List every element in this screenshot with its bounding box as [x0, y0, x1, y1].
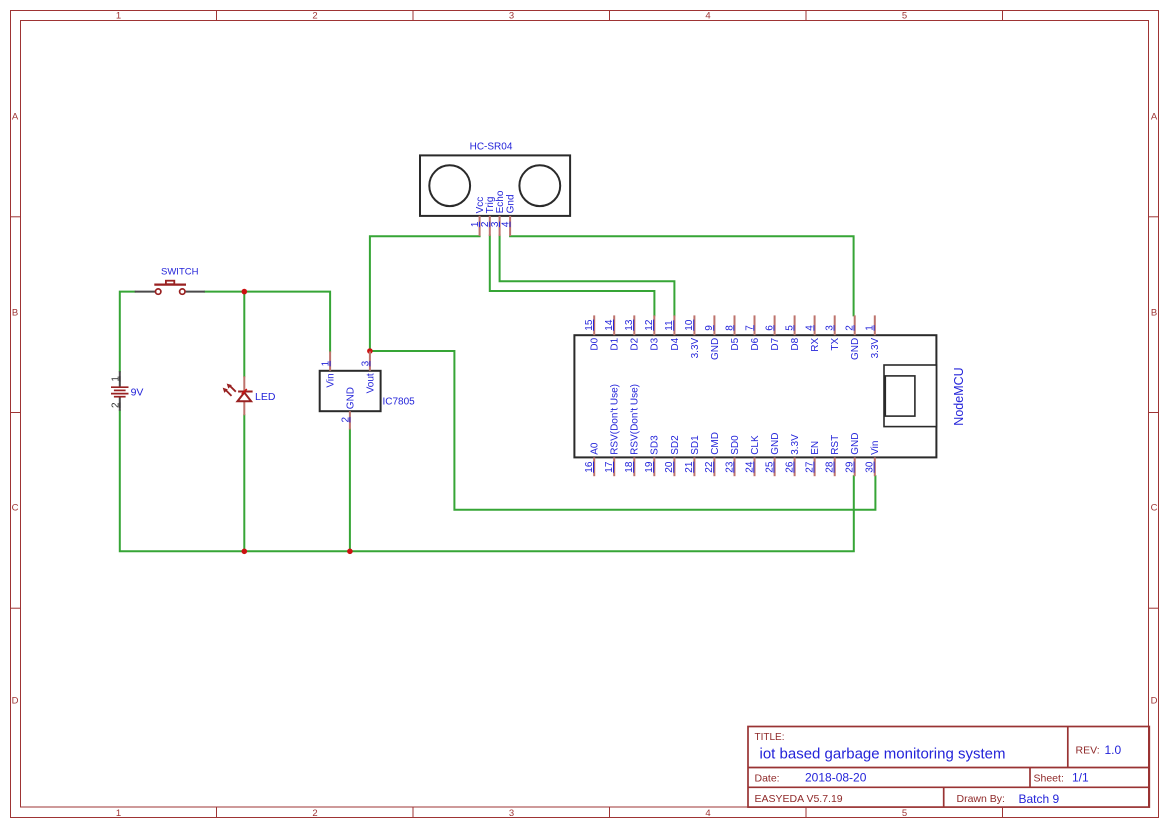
HC-SR04 pin 2 Trig	[480, 197, 496, 236]
HC-SR04 pin 3 Echo	[490, 190, 506, 236]
svg-text:IC7805: IC7805	[383, 397, 416, 408]
svg-text:23: 23	[724, 461, 735, 473]
svg-text:4: 4	[804, 325, 815, 331]
wire switch to IC7805 Vin (via LED node)	[205, 292, 330, 352]
svg-text:18: 18	[624, 461, 635, 473]
NodeMCU pin 20 SD2	[664, 435, 681, 476]
svg-text:14: 14	[604, 319, 615, 331]
svg-text:D5: D5	[730, 337, 741, 350]
NodeMCU pin 30 Vin	[865, 441, 882, 477]
svg-text:3: 3	[490, 221, 501, 227]
wire HC-SR04 Trig to NodeMCU D3 pin 12	[490, 236, 655, 316]
svg-text:GND: GND	[710, 338, 721, 360]
svg-text:4: 4	[705, 11, 710, 22]
svg-text:29: 29	[845, 461, 856, 473]
junction IC gnd junction	[347, 549, 353, 555]
svg-text:1/1: 1/1	[1072, 771, 1089, 785]
svg-text:1: 1	[321, 360, 332, 366]
svg-text:SD1: SD1	[690, 435, 701, 455]
LED symbol	[223, 376, 252, 415]
svg-text:HC-SR04: HC-SR04	[470, 141, 513, 152]
svg-text:TX: TX	[830, 337, 841, 350]
svg-text:REV:: REV:	[1076, 745, 1100, 757]
NodeMCU pin 3 TX	[825, 315, 842, 350]
svg-text:3: 3	[509, 808, 514, 819]
NodeMCU pin 10 3.3V	[684, 315, 701, 358]
svg-text:9V: 9V	[131, 386, 144, 398]
NodeMCU pin 11 D4	[664, 315, 681, 350]
svg-text:C: C	[1151, 503, 1158, 514]
NodeMCU pin 12 D3	[644, 315, 661, 350]
svg-text:D0: D0	[590, 337, 601, 350]
svg-text:RSV(Don't Use): RSV(Don't Use)	[610, 384, 621, 455]
svg-text:20: 20	[664, 461, 675, 473]
svg-text:SD0: SD0	[730, 435, 741, 455]
svg-text:TITLE:: TITLE:	[755, 732, 785, 743]
svg-text:D4: D4	[670, 337, 681, 350]
svg-text:NodeMCU: NodeMCU	[952, 367, 966, 425]
svg-text:C: C	[12, 503, 19, 514]
svg-text:RX: RX	[810, 337, 821, 351]
svg-text:LED: LED	[255, 391, 276, 403]
svg-text:12: 12	[644, 319, 655, 331]
IC7805 pin 1 Vin	[321, 351, 337, 387]
NodeMCU pin 19 SD3	[644, 435, 661, 476]
NodeMCU pin 23 SD0	[724, 435, 741, 476]
svg-text:Echo: Echo	[495, 190, 506, 213]
wire IC7805 GND to ground rail	[349, 430, 351, 552]
svg-text:GND: GND	[850, 433, 861, 455]
wire LED cathode to ground rail	[243, 415, 245, 551]
svg-text:3: 3	[825, 325, 836, 331]
NodeMCU USB connector inner	[885, 376, 915, 416]
NodeMCU pin 25 GND	[764, 433, 781, 477]
svg-text:2: 2	[312, 808, 317, 819]
svg-text:B: B	[1151, 308, 1157, 319]
svg-text:GND: GND	[850, 338, 861, 360]
NodeMCU body	[574, 335, 936, 457]
NodeMCU pin 15 D0	[584, 315, 601, 350]
svg-text:1: 1	[865, 325, 876, 331]
svg-text:5: 5	[902, 808, 907, 819]
svg-text:15: 15	[584, 319, 595, 331]
NodeMCU pin 1 3.3V	[865, 315, 882, 358]
svg-text:2018-08-20: 2018-08-20	[805, 771, 867, 785]
svg-text:4: 4	[705, 808, 710, 819]
svg-text:D: D	[12, 696, 19, 707]
svg-text:GND: GND	[770, 433, 781, 455]
svg-text:2: 2	[340, 416, 351, 422]
svg-text:16: 16	[584, 461, 595, 473]
NodeMCU pin 26 3.3V	[784, 434, 801, 476]
svg-text:5: 5	[902, 11, 907, 22]
svg-text:CMD: CMD	[710, 432, 721, 455]
svg-text:9: 9	[704, 325, 715, 331]
svg-text:11: 11	[664, 320, 675, 331]
svg-text:21: 21	[684, 461, 695, 473]
svg-text:3.3V: 3.3V	[690, 337, 701, 358]
wire node to LED anode	[243, 292, 245, 377]
svg-text:2: 2	[312, 11, 317, 22]
svg-text:3.3V: 3.3V	[790, 434, 801, 455]
svg-text:2: 2	[845, 325, 856, 331]
NodeMCU pin 24 CLK	[744, 435, 761, 476]
svg-text:A0: A0	[590, 442, 601, 455]
svg-text:27: 27	[804, 461, 815, 473]
NodeMCU pin 16 A0	[584, 442, 601, 476]
NodeMCU pin 22 CMD	[704, 432, 721, 476]
svg-text:SWITCH: SWITCH	[161, 267, 199, 278]
svg-text:2: 2	[110, 402, 121, 408]
svg-text:7: 7	[744, 325, 755, 331]
NodeMCU pin 13 D2	[624, 315, 641, 350]
svg-text:10: 10	[684, 319, 695, 331]
NodeMCU pin 9 GND	[704, 315, 721, 360]
NodeMCU pin 2 GND	[845, 315, 862, 360]
svg-text:Sheet:: Sheet:	[1034, 773, 1064, 785]
HC-SR04 pin 1 Vcc	[470, 197, 486, 236]
svg-text:Vout: Vout	[365, 373, 376, 393]
svg-text:1: 1	[110, 376, 121, 382]
NodeMCU pin 17 RSV(Don't Use)	[604, 384, 621, 476]
wire IC7805 Vout to NodeMCU Vin pin 30	[370, 351, 876, 510]
NodeMCU pin 29 GND	[845, 433, 862, 477]
svg-text:iot based garbage monitoring s: iot based garbage monitoring system	[760, 746, 1006, 763]
svg-text:D1: D1	[610, 337, 621, 350]
NodeMCU pin 6 D7	[764, 315, 781, 350]
svg-text:CLK: CLK	[750, 435, 761, 455]
svg-text:3.3V: 3.3V	[870, 337, 881, 358]
junction switch/LED/IC node	[242, 289, 248, 295]
wire ground rail battery- to NodeMCU GND pin 29	[120, 411, 854, 552]
svg-text:D: D	[1151, 696, 1158, 707]
wire HC-SR04 Echo to NodeMCU D4 pin 11	[500, 236, 675, 316]
NodeMCU pin 18 RSV(Don't Use)	[624, 384, 641, 476]
svg-text:D8: D8	[790, 337, 801, 350]
NodeMCU pin 27 EN	[804, 441, 821, 476]
svg-text:GND: GND	[345, 387, 356, 409]
svg-text:28: 28	[825, 461, 836, 473]
svg-text:Drawn By:: Drawn By:	[957, 793, 1005, 805]
HC-SR04 pin 4 Gnd	[501, 194, 517, 236]
regulator IC7805 body	[320, 371, 381, 411]
svg-text:3: 3	[360, 360, 371, 366]
svg-text:22: 22	[704, 461, 715, 473]
svg-text:19: 19	[644, 461, 655, 473]
svg-text:Batch 9: Batch 9	[1019, 792, 1060, 806]
svg-text:RSV(Don't Use): RSV(Don't Use)	[630, 384, 641, 455]
svg-text:D2: D2	[630, 337, 641, 350]
svg-text:1: 1	[116, 11, 121, 22]
svg-text:Date:: Date:	[755, 773, 780, 785]
wire HC-SR04 Vcc to IC7805 Vout node	[370, 236, 480, 351]
IC7805 pin 3 Vout	[360, 351, 376, 393]
svg-text:6: 6	[764, 325, 775, 331]
svg-text:1: 1	[116, 808, 121, 819]
battery 9V symbol	[111, 371, 129, 411]
NodeMCU pin 28 RST	[825, 435, 842, 476]
NodeMCU pin 14 D1	[604, 315, 621, 350]
svg-text:26: 26	[784, 461, 795, 473]
svg-text:SD3: SD3	[650, 435, 661, 455]
wire HC-SR04 Gnd to NodeMCU GND pin 2	[510, 236, 853, 315]
svg-text:1.0: 1.0	[1105, 743, 1122, 757]
NodeMCU pin 7 D6	[744, 315, 761, 350]
ultrasonic sensor HC-SR04 body	[420, 155, 570, 216]
NodeMCU pin 4 RX	[804, 315, 821, 351]
svg-text:D6: D6	[750, 337, 761, 350]
svg-text:Vin: Vin	[326, 373, 337, 387]
svg-text:30: 30	[865, 461, 876, 473]
svg-text:D7: D7	[770, 337, 781, 350]
svg-text:24: 24	[744, 461, 755, 473]
NodeMCU USB connector outer	[884, 365, 936, 427]
svg-text:A: A	[1151, 112, 1158, 123]
svg-text:25: 25	[764, 461, 775, 473]
svg-text:EN: EN	[810, 441, 821, 455]
NodeMCU pin 21 SD1	[684, 435, 701, 476]
IC7805 pin 2 GND	[340, 387, 356, 430]
svg-text:Gnd: Gnd	[506, 194, 517, 213]
svg-text:13: 13	[624, 319, 635, 331]
svg-text:A: A	[12, 112, 19, 123]
NodeMCU pin 5 D8	[784, 315, 801, 350]
junction Vout node	[367, 348, 373, 354]
svg-text:8: 8	[724, 325, 735, 331]
switch symbol	[135, 281, 205, 295]
svg-text:3: 3	[509, 11, 514, 22]
svg-text:SD2: SD2	[670, 435, 681, 455]
NodeMCU pin 8 D5	[724, 315, 741, 350]
title block frame	[748, 727, 1149, 808]
svg-text:B: B	[12, 308, 18, 319]
svg-text:5: 5	[784, 325, 795, 331]
svg-text:17: 17	[604, 461, 615, 473]
junction LED-gnd junction	[242, 549, 248, 555]
svg-text:4: 4	[501, 221, 512, 227]
wire battery+ to switch	[120, 292, 135, 372]
svg-text:Vin: Vin	[870, 441, 881, 455]
svg-text:EASYEDA V5.7.19: EASYEDA V5.7.19	[755, 793, 843, 805]
svg-text:RST: RST	[830, 435, 841, 455]
svg-text:D3: D3	[650, 337, 661, 350]
